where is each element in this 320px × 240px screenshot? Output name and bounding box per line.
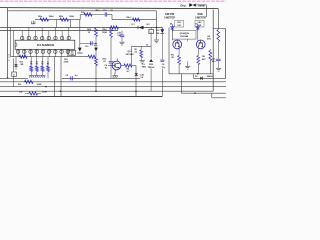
wire bus M bbox=[0, 86, 226, 88]
wire box2 down bbox=[150, 34, 152, 59]
svg-text:4u.: 4u. bbox=[75, 74, 78, 77]
label R41 100K bbox=[19, 91, 47, 94]
wire row J bbox=[132, 45, 152, 47]
label D11 bbox=[131, 24, 150, 26]
label R66 47K bbox=[207, 36, 211, 41]
ground blue 1 bbox=[29, 76, 34, 78]
label R64 bbox=[134, 49, 137, 53]
wire bus N bbox=[0, 90, 213, 92]
diode D9 bbox=[195, 24, 199, 32]
wire corner S bbox=[212, 93, 226, 98]
wires top pins to buses bbox=[22, 28, 69, 37]
label D12 bbox=[156, 30, 159, 35]
wire row H bbox=[11, 56, 89, 58]
svg-text:R4.: R4. bbox=[18, 83, 22, 86]
label R6d bbox=[127, 17, 132, 19]
wire detail box right vertical bbox=[212, 10, 214, 92]
wire Q1A emitter bbox=[178, 48, 180, 55]
wire vert x13.5 bbox=[13, 58, 15, 86]
resistor R61v bbox=[95, 58, 98, 66]
wire box2 tail bbox=[150, 69, 152, 92]
wires bottom pin stubs bbox=[18, 54, 68, 57]
label R61 220K bbox=[64, 59, 69, 64]
wire Q1B emitter bbox=[197, 49, 199, 56]
wire Q10 collector bbox=[117, 58, 119, 61]
resistor Rv2 bbox=[35, 57, 38, 75]
capacitor C42 bbox=[120, 35, 125, 42]
resistor R68 under Q1B bbox=[197, 56, 200, 74]
svg-text:R5: R5 bbox=[36, 64, 38, 66]
wire bus A corner drop bbox=[217, 9, 219, 29]
svg-text:4.2: 4.2 bbox=[134, 51, 137, 54]
wire vert x60.5 bbox=[60, 57, 62, 97]
wire bus top B bbox=[8, 10, 157, 12]
wire vert x13.5 upper bbox=[13, 31, 15, 57]
wire detail area left vertical bbox=[168, 28, 170, 74]
wire diode row T bbox=[194, 74, 227, 79]
label SSR 5 METER bbox=[195, 13, 206, 19]
label R68 bbox=[202, 56, 207, 61]
resistor R41 bbox=[25, 92, 41, 95]
svg-text:R5: R5 bbox=[47, 64, 49, 66]
wire bus B drop bbox=[155, 11, 157, 40]
wire row G bbox=[112, 19, 157, 21]
svg-text:TR4140: TR4140 bbox=[148, 66, 155, 69]
resistor R6b bbox=[60, 18, 69, 21]
label VK1 10K bbox=[175, 20, 184, 27]
diode D8 bbox=[170, 24, 174, 32]
box D4 TR4140 bbox=[69, 50, 76, 56]
ground blue 2 bbox=[34, 76, 39, 78]
label C60 bbox=[162, 64, 166, 69]
resistor R63 on bus bbox=[111, 26, 119, 29]
ground far right bbox=[216, 68, 221, 71]
label TP blue bbox=[146, 44, 149, 46]
svg-text:D1.: D1. bbox=[195, 76, 199, 78]
resistor R69 bbox=[209, 49, 212, 74]
label VK2 10K bbox=[195, 20, 204, 27]
wire vert x131.5 bbox=[131, 46, 133, 65]
resistor R60 bbox=[95, 28, 98, 48]
resistor R19 bbox=[84, 13, 92, 16]
marker bowtie in title bbox=[189, 3, 196, 7]
wire vert x136 bbox=[135, 66, 137, 97]
power arrow with plate bbox=[77, 48, 82, 53]
box Q1A/Q1B bbox=[172, 30, 196, 39]
svg-text:2: 2 bbox=[8, 60, 9, 62]
IC bottom pin circles bbox=[16, 50, 69, 53]
svg-text:100b: 100b bbox=[69, 16, 75, 18]
svg-text:5 METER: 5 METER bbox=[195, 17, 206, 20]
svg-text:5 METER: 5 METER bbox=[164, 17, 175, 20]
resistor R65 bbox=[121, 64, 136, 67]
wire title leader bbox=[196, 5, 206, 17]
resistor R6dv bbox=[110, 28, 113, 62]
capacitor C43 bbox=[216, 59, 221, 68]
label C42 104 bbox=[117, 31, 122, 37]
wire C60 tail bbox=[161, 69, 163, 97]
svg-text:R5: R5 bbox=[41, 64, 43, 66]
wire x96 down bbox=[95, 66, 97, 92]
label 100R bbox=[20, 62, 24, 67]
svg-text:10K: 10K bbox=[177, 25, 181, 27]
transistor Q1B bbox=[196, 40, 205, 49]
capacitor C80 bbox=[62, 76, 80, 80]
wire bus L bbox=[0, 81, 226, 83]
svg-text:100K: 100K bbox=[42, 92, 47, 94]
resistor R6a bbox=[40, 18, 49, 21]
label R67 bbox=[171, 54, 175, 59]
wire drop x70.5 bbox=[70, 20, 72, 28]
diode D12 bbox=[160, 28, 164, 34]
wire D9 to Q1B bbox=[197, 30, 199, 41]
label GRI PW 5 METER bbox=[164, 13, 175, 19]
label Drive Detail bbox=[181, 4, 206, 7]
svg-text:Q1A/Q1B: Q1A/Q1B bbox=[180, 32, 190, 35]
pink dashed page-margin line bbox=[0, 0, 226, 2]
svg-text:C8.: C8. bbox=[65, 75, 69, 77]
wire cap to drop bbox=[107, 15, 112, 20]
ground mid right bbox=[185, 39, 190, 69]
wire vert x10.5 bbox=[10, 28, 12, 57]
label C10 10u bbox=[103, 10, 114, 12]
svg-text:3: 3 bbox=[8, 57, 9, 59]
power arrow down bbox=[94, 48, 98, 57]
diode D11 bbox=[138, 26, 144, 30]
label B10 bbox=[96, 10, 101, 12]
label C13 bbox=[142, 64, 147, 69]
label C41 47u bbox=[104, 64, 108, 70]
diode D15 bbox=[200, 77, 202, 81]
label D1B TR4140 bbox=[148, 64, 155, 69]
resistor R66 bbox=[217, 28, 220, 58]
label R60 1K bbox=[87, 29, 92, 34]
wire right top bbox=[213, 27, 225, 29]
label R6d 100K bbox=[102, 29, 107, 34]
svg-text:04.: 04. bbox=[141, 76, 144, 79]
label Q10 2SC948 bbox=[126, 51, 135, 56]
wire bus D bbox=[0, 30, 118, 32]
svg-text:5: 5 bbox=[8, 54, 9, 56]
label Rv2 bbox=[36, 61, 39, 65]
wire node row F bbox=[80, 15, 105, 20]
wire row Q bbox=[169, 73, 213, 75]
svg-text:1N6: 1N6 bbox=[156, 33, 159, 35]
ground blue Q10 bbox=[112, 76, 117, 78]
ground under bus B drop bbox=[154, 40, 159, 43]
wire drop C42 bbox=[121, 31, 123, 35]
svg-text:D8: D8 bbox=[170, 24, 172, 26]
label Rv1 bbox=[30, 61, 33, 65]
wire node row E bbox=[35, 19, 80, 21]
resistor Rv3 bbox=[41, 57, 44, 75]
junction dots bbox=[7, 27, 199, 94]
wire Q10 emitter bbox=[114, 70, 117, 75]
blue input connector bbox=[31, 21, 35, 24]
svg-text:R4.: R4. bbox=[19, 91, 23, 94]
wire drop x57 bbox=[56, 20, 58, 28]
diode D13 bbox=[14, 64, 18, 69]
ground R64 bbox=[140, 60, 145, 63]
label R62 1K bbox=[103, 59, 108, 64]
label Rv4 bbox=[47, 61, 49, 65]
wire D12 down bbox=[161, 33, 163, 60]
label R6b 100K bbox=[59, 16, 75, 18]
wire bus K2 bbox=[62, 77, 140, 79]
resistor R6d2 bbox=[133, 18, 141, 21]
label conn left bbox=[8, 54, 9, 62]
svg-text:IC1 NJM2043: IC1 NJM2043 bbox=[37, 43, 55, 47]
label R19 bbox=[81, 12, 85, 14]
wire D8 to Q1A bbox=[171, 30, 173, 41]
capacitor C41 bbox=[109, 62, 114, 79]
diode up D1B bbox=[149, 59, 152, 62]
wire Q10 base bbox=[108, 65, 112, 67]
IC top pin circles bbox=[21, 36, 71, 39]
wire vert x53.5 bbox=[54, 57, 56, 97]
capacitor C60 bbox=[160, 60, 165, 62]
label C8 47u bbox=[85, 44, 98, 48]
resistor R40 bbox=[25, 80, 34, 83]
wire right edge vertical bbox=[224, 28, 226, 78]
wire bus P bbox=[0, 96, 162, 98]
svg-text:2SC94B: 2SC94B bbox=[180, 35, 188, 38]
resistor R67 under Q1A bbox=[178, 56, 181, 74]
svg-text:47K: 47K bbox=[207, 38, 211, 41]
wire row C8 bbox=[80, 42, 96, 44]
svg-text:Drig: Drig bbox=[181, 4, 186, 7]
transistor Q1A bbox=[173, 40, 182, 49]
capacitor C8 bbox=[91, 41, 93, 45]
transistor Q10 bbox=[112, 61, 121, 70]
component box 2 bbox=[149, 28, 153, 34]
resistor Rv4 bbox=[47, 57, 50, 79]
wire left vertical bus bbox=[7, 8, 9, 78]
label R65 bbox=[126, 68, 130, 73]
svg-text:R5: R5 bbox=[30, 64, 32, 66]
label D15 1N4148 bbox=[195, 75, 214, 78]
svg-text:100K: 100K bbox=[37, 84, 42, 86]
label Rv3 bbox=[41, 61, 44, 65]
svg-text:C4.: C4. bbox=[104, 64, 108, 67]
svg-text:2SC948: 2SC948 bbox=[126, 53, 135, 56]
resistor Rv1 bbox=[30, 57, 33, 75]
svg-text:C4.: C4. bbox=[212, 58, 216, 61]
label C40 bbox=[140, 74, 145, 80]
svg-text:D9: D9 bbox=[195, 24, 197, 26]
box D17 bbox=[12, 72, 17, 76]
resistor R62 bbox=[88, 55, 96, 58]
ground blue 3 bbox=[40, 76, 45, 78]
svg-text:D4: D4 bbox=[71, 51, 73, 54]
svg-text:220K: 220K bbox=[64, 62, 69, 64]
diode D14 on x136 bbox=[135, 73, 139, 75]
ground C42 bbox=[119, 42, 124, 45]
wire drop diode D13 bbox=[15, 57, 17, 64]
label C80 4u bbox=[65, 74, 78, 77]
wire bus C bbox=[0, 27, 162, 29]
svg-text:100d: 100d bbox=[49, 16, 55, 18]
svg-text:1N4148: 1N4148 bbox=[206, 75, 214, 78]
resistor R59 bbox=[19, 55, 27, 58]
wire drop x79.8 bbox=[79, 20, 81, 48]
label R40 100K bbox=[18, 83, 42, 86]
svg-text:R6b: R6b bbox=[59, 16, 64, 18]
wire bus K bbox=[0, 77, 28, 79]
label R6a 100K bbox=[38, 16, 54, 18]
wire corner R bbox=[181, 74, 226, 93]
wire bus top A bbox=[0, 8, 218, 9]
IC U1 body bbox=[15, 40, 75, 49]
IC U1 label bbox=[37, 43, 55, 47]
capacitor C10 bbox=[105, 12, 107, 16]
label C43 47u bbox=[212, 58, 216, 64]
resistor R64 bbox=[140, 46, 143, 60]
svg-text:100K: 100K bbox=[102, 32, 107, 34]
